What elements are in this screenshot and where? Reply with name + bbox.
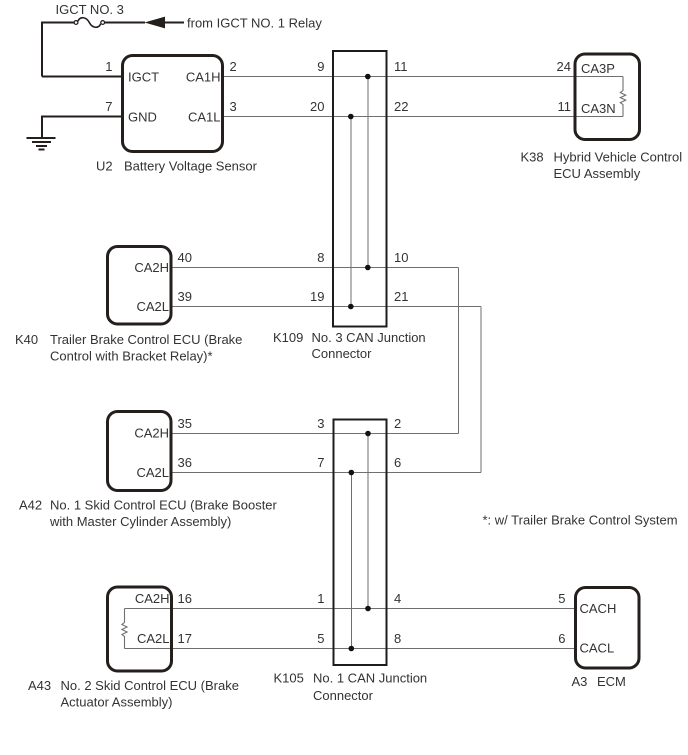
skid control ECU A42 box	[108, 412, 172, 491]
svg-text:IGCT: IGCT	[128, 70, 159, 85]
K38 pin name CA3P	[581, 61, 615, 76]
svg-text:A43: A43	[28, 678, 51, 693]
junction dot K105 pin 2	[365, 431, 371, 437]
skid control ECU A43 box	[108, 587, 172, 671]
wire vertical link K109 pin 21 to K105 pin 6	[480, 307, 482, 473]
U2 pin number 2	[230, 59, 237, 74]
svg-text:GND: GND	[128, 110, 157, 125]
junction dot K109 pin 19	[348, 304, 354, 310]
K40 pin name CA2L	[136, 299, 169, 314]
K105 label	[274, 671, 428, 704]
wire CA2L row A42: pin 36 to K105 pin 7/6	[172, 472, 481, 474]
svg-text:35: 35	[178, 416, 192, 431]
junction dot K105 pin 7	[349, 470, 355, 476]
K109 pin number 21	[394, 289, 408, 304]
battery voltage sensor U2 box	[123, 56, 223, 152]
resistor inside A43	[122, 609, 127, 649]
svg-text:No. 3 CAN Junction: No. 3 CAN Junction	[312, 330, 426, 345]
svg-text:9: 9	[317, 59, 324, 74]
wire CA1H row: U2 pin 2 to K109 pin 9/11 to K38 pin 24	[224, 76, 623, 78]
note w/ Trailer Brake Control System	[483, 513, 678, 528]
K38 pin name CA3N	[581, 101, 616, 116]
A42 label	[19, 498, 278, 530]
U2 pin name CA1L	[188, 110, 221, 125]
svg-text:K38: K38	[521, 150, 544, 165]
junction dot K109 pin 10	[365, 265, 371, 271]
K38 label	[521, 150, 683, 182]
A3 pin name CACH	[580, 601, 617, 616]
junction dot K109 pin 20	[348, 114, 354, 120]
svg-text:No. 1 CAN Junction: No. 1 CAN Junction	[313, 671, 427, 686]
arrow from IGCT NO. 1 Relay	[145, 16, 323, 31]
wire IGCT pin 1	[42, 76, 122, 78]
A3 pin number 5	[558, 591, 565, 606]
K105 pin number 1	[317, 591, 324, 606]
U2 pin number 7	[105, 99, 112, 114]
svg-text:7: 7	[317, 455, 324, 470]
svg-text:*: w/ Trailer Brake Control Sy: *: w/ Trailer Brake Control System	[483, 513, 678, 528]
K105 pin number 8	[394, 631, 401, 646]
K109 pin number 8	[317, 250, 324, 265]
A43 pin number 16	[178, 591, 192, 606]
K105 pin number 4	[394, 591, 401, 606]
svg-text:3: 3	[230, 99, 237, 114]
U2 pin name CA1H	[186, 70, 221, 85]
svg-text:CA3N: CA3N	[581, 101, 616, 116]
K105 pin number 6	[394, 455, 401, 470]
svg-text:6: 6	[558, 631, 565, 646]
svg-text:CA2H: CA2H	[134, 426, 169, 441]
junction K105 box	[334, 420, 387, 666]
ground	[27, 138, 56, 150]
svg-text:11: 11	[394, 59, 408, 74]
wire fuse to arrow	[105, 22, 145, 24]
fuse IGCT NO. 3	[74, 18, 105, 28]
svg-text:CA2L: CA2L	[136, 465, 169, 480]
K109 pin number 22	[394, 99, 408, 114]
svg-text:U2: U2	[96, 159, 113, 174]
svg-text:11: 11	[558, 99, 572, 114]
K109 pin number 19	[310, 289, 324, 304]
svg-text:IGCT NO. 3: IGCT NO. 3	[56, 2, 124, 17]
svg-text:Connector: Connector	[312, 346, 373, 361]
svg-text:19: 19	[310, 289, 324, 304]
svg-text:8: 8	[394, 631, 401, 646]
svg-text:5: 5	[558, 591, 565, 606]
K105 pin number 5	[317, 631, 324, 646]
ECM A3 box	[576, 588, 640, 669]
svg-text:A3: A3	[572, 674, 588, 689]
K109 pin number 9	[317, 59, 324, 74]
svg-text:4: 4	[394, 591, 401, 606]
K109 label	[273, 330, 426, 361]
A42 pin name CA2H	[134, 426, 169, 441]
svg-text:CA2L: CA2L	[137, 631, 170, 646]
svg-text:20: 20	[310, 99, 324, 114]
K109 pin number 10	[394, 250, 408, 265]
A43 pin name CA2H	[135, 591, 170, 606]
K109 pin number 20	[310, 99, 324, 114]
hybrid vehicle control ECU K38 box	[575, 54, 640, 140]
K38 pin number 24	[557, 59, 571, 74]
svg-text:from IGCT NO. 1 Relay: from IGCT NO. 1 Relay	[187, 16, 322, 31]
svg-text:ECU Assembly: ECU Assembly	[554, 166, 641, 181]
wire GND pin 7	[42, 116, 122, 139]
junction dot K105 pin 5	[349, 646, 355, 652]
A43 pin name CA2L	[137, 631, 170, 646]
A42 pin name CA2L	[136, 465, 169, 480]
svg-text:Hybrid Vehicle Control: Hybrid Vehicle Control	[554, 150, 683, 165]
svg-text:CA1L: CA1L	[188, 110, 221, 125]
svg-text:5: 5	[317, 631, 324, 646]
A3 pin name CACL	[580, 641, 615, 656]
svg-text:Control with Bracket Relay)*: Control with Bracket Relay)*	[50, 349, 213, 364]
junction K109 box	[333, 51, 386, 327]
K109 pin number 11	[394, 59, 408, 74]
A42 pin number 35	[178, 416, 192, 431]
trailer brake control ECU K40 box	[108, 247, 172, 325]
svg-text:2: 2	[394, 416, 401, 431]
svg-text:2: 2	[230, 59, 237, 74]
wire K105 internal bus H	[367, 434, 369, 609]
svg-text:36: 36	[178, 455, 192, 470]
U2 label	[96, 159, 258, 174]
K40 pin name CA2H	[134, 260, 169, 275]
U2 pin number 1	[105, 59, 112, 74]
K105 pin number 3	[317, 416, 324, 431]
A42 pin number 36	[178, 455, 192, 470]
svg-text:22: 22	[394, 99, 408, 114]
svg-text:21: 21	[394, 289, 408, 304]
svg-text:with Master Cylinder Assembly): with Master Cylinder Assembly)	[49, 514, 231, 529]
wire CACH row: A43 pin 16 to K105 pin 1/4 to ECM pin 5	[125, 608, 576, 610]
svg-text:CA1H: CA1H	[186, 70, 221, 85]
wire K109 internal bus H	[367, 77, 369, 268]
U2 pin name GND	[128, 110, 157, 125]
wire vertical link K109 pin 10 to K105 pin 2	[458, 268, 460, 434]
wire fuse feed left + vertical to pin 1	[42, 22, 74, 77]
U2 pin number 3	[230, 99, 237, 114]
svg-text:24: 24	[557, 59, 571, 74]
svg-text:39: 39	[178, 289, 192, 304]
wire K109 internal bus L	[350, 117, 352, 307]
svg-text:K109: K109	[273, 330, 303, 345]
svg-text:No. 1 Skid Control ECU (Brake: No. 1 Skid Control ECU (Brake Booster	[50, 498, 278, 513]
K40 pin number 39	[178, 289, 192, 304]
svg-text:7: 7	[105, 99, 112, 114]
resistor inside K38	[620, 77, 625, 117]
svg-text:CA3P: CA3P	[581, 61, 615, 76]
svg-text:40: 40	[178, 250, 192, 265]
junction dot K109 pin 11	[365, 74, 371, 80]
wire CACL row: A43 pin 17 to K105 pin 5/8 to ECM pin 6	[125, 648, 576, 650]
svg-text:Actuator Assembly): Actuator Assembly)	[61, 695, 173, 710]
svg-text:CA2H: CA2H	[135, 591, 170, 606]
svg-text:1: 1	[317, 591, 324, 606]
svg-text:Connector: Connector	[313, 688, 374, 703]
K40 pin number 40	[178, 250, 192, 265]
A3 label	[572, 674, 626, 689]
junction dot K105 pin 4	[365, 606, 371, 612]
U2 pin name IGCT	[128, 70, 159, 85]
svg-text:A42: A42	[19, 498, 42, 513]
svg-text:K40: K40	[15, 332, 38, 347]
wire CA2H row A42: pin 35 to K105 pin 3/2	[172, 433, 459, 435]
svg-text:ECM: ECM	[597, 674, 626, 689]
wire CA2H row K40: pin 40 to K109 pin 8/10	[173, 267, 459, 269]
svg-text:CA2L: CA2L	[136, 299, 169, 314]
svg-text:CACH: CACH	[580, 601, 617, 616]
svg-text:CA2H: CA2H	[134, 260, 169, 275]
svg-text:3: 3	[317, 416, 324, 431]
svg-text:K105: K105	[274, 671, 304, 686]
wire K105 internal bus L	[350, 473, 352, 649]
node IGCT NO. 3 label	[56, 2, 124, 17]
A43 pin number 17	[178, 631, 192, 646]
A3 pin number 6	[558, 631, 565, 646]
svg-text:Trailer Brake Control ECU (Bra: Trailer Brake Control ECU (Brake	[50, 332, 242, 347]
svg-text:No. 2 Skid Control ECU (Brake: No. 2 Skid Control ECU (Brake	[61, 678, 239, 693]
svg-text:Battery Voltage Sensor: Battery Voltage Sensor	[124, 159, 258, 174]
svg-text:16: 16	[178, 591, 192, 606]
svg-text:CACL: CACL	[580, 641, 615, 656]
svg-text:17: 17	[178, 631, 192, 646]
K38 pin number 11	[558, 99, 572, 114]
wire CA1L row: U2 pin 3 to K109 pin 20/22 to K38 pin 11	[224, 116, 623, 118]
svg-text:8: 8	[317, 250, 324, 265]
K40 label	[15, 332, 242, 364]
K105 pin number 2	[394, 416, 401, 431]
svg-text:6: 6	[394, 455, 401, 470]
svg-text:10: 10	[394, 250, 408, 265]
wire CA2L row K40: pin 39 to K109 pin 19/21	[173, 306, 482, 308]
K105 pin number 7	[317, 455, 324, 470]
svg-text:1: 1	[105, 59, 112, 74]
A43 label	[28, 678, 239, 710]
